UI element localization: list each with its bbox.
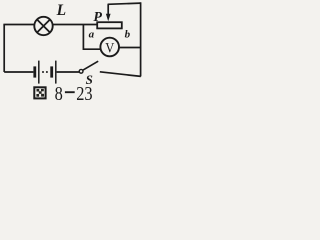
battery middle dots [42, 71, 44, 73]
svg-text:V: V [105, 40, 114, 56]
svg-text:23: 23 [76, 82, 92, 103]
slider P arrow [106, 4, 111, 21]
svg-text:P: P [93, 10, 102, 25]
wire battery to switch [57, 71, 80, 73]
potentiometer R (slide rheostat body) [97, 22, 122, 28]
svg-text:a: a [89, 29, 95, 41]
caption hanzi TU (figure) drawn as strokes [34, 87, 45, 98]
voltmeter V [100, 38, 119, 57]
svg-text:L: L [56, 2, 66, 19]
wire top right horizontal [108, 3, 141, 4]
switch S lever [83, 61, 98, 70]
wire top left horizontal [3, 24, 34, 26]
caption dash [65, 91, 75, 93]
wire right vertical [140, 2, 142, 76]
battery cell 1 negative plate [33, 66, 36, 77]
wire voltmeter to right [119, 47, 141, 49]
svg-text:8: 8 [55, 82, 63, 103]
battery cell 2 negative plate [50, 66, 53, 77]
node A junction branch to voltmeter [83, 25, 100, 50]
switch S pivot [79, 69, 83, 73]
wire lamp to potentiometer [53, 24, 97, 26]
battery cell 1 positive plate [38, 61, 40, 84]
wire bottom left [4, 71, 33, 73]
svg-text:b: b [125, 28, 131, 40]
wire left vertical [3, 25, 5, 73]
battery cell 2 positive plate [55, 61, 57, 84]
wire switch to bottom right [100, 72, 141, 77]
lamp L [34, 17, 52, 35]
